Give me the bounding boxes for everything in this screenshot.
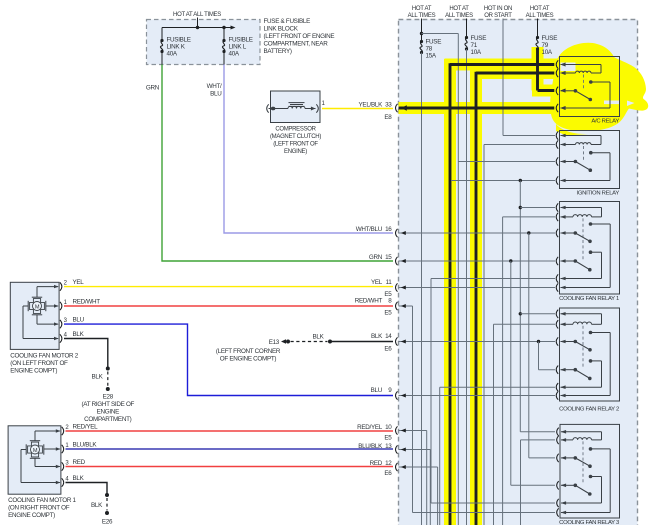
svg-text:FUSE: FUSE (542, 35, 558, 42)
svg-text:ENGINE: ENGINE (97, 409, 119, 416)
relay K5 cooling fan relay 3 (557, 424, 620, 518)
svg-text:ENGINE COMPT): ENGINE COMPT) (8, 512, 55, 519)
svg-text:LINK K: LINK K (167, 44, 186, 51)
svg-text:40A: 40A (229, 51, 240, 58)
power feed HOT AT ALL TIMES (fusible links) (173, 12, 221, 18)
label BLU 9 (371, 387, 393, 394)
wire vertical (highlighted) at x=476 (475, 72, 478, 525)
wire BLK 14 with splice E13 (269, 334, 393, 347)
svg-text:10A: 10A (471, 49, 482, 56)
svg-text:HOT AT: HOT AT (412, 6, 432, 12)
svg-text:LINK L: LINK L (229, 44, 247, 51)
svg-text:HOT AT ALL TIMES: HOT AT ALL TIMES (173, 12, 221, 18)
svg-text:YEL/BLK: YEL/BLK (359, 102, 384, 109)
wire from HOT AT ALL TIMES into fuse block (197, 18, 199, 28)
svg-text:78: 78 (426, 46, 433, 53)
label A/C RELAY (591, 118, 619, 124)
svg-text:RED: RED (370, 460, 383, 467)
wire HOT IN ON OR START to ignition relay pin 1 (503, 19, 555, 136)
wire YEL/BLK 33 compressor to A/C relay (322, 102, 393, 121)
highlighter mark over A/C relay circuit (399, 43, 649, 525)
label WHT/BLU 16 (356, 226, 393, 233)
power feed 1 HOT AT ALL TIMES (408, 6, 436, 19)
svg-text:FUSIBLE: FUSIBLE (229, 37, 253, 44)
label COOLING FAN RELAY 2 (559, 406, 619, 412)
svg-text:HOT IN ON: HOT IN ON (484, 6, 512, 12)
svg-text:(ON LEFT FRONT OF: (ON LEFT FRONT OF (10, 360, 68, 367)
svg-text:BLK: BLK (91, 374, 103, 381)
node junction BLK branch (537, 340, 540, 343)
svg-text:(LEFT FRONT OF ENGINE: (LEFT FRONT OF ENGINE (264, 33, 335, 40)
svg-text:RED/YEL: RED/YEL (357, 424, 383, 431)
wire to cooling fan relay 2 pin 1 (519, 312, 555, 315)
wire cooling fan relay 2 pin 2 (coil ground) (494, 324, 556, 525)
wire GRN row to cooling fan relay 1 pin 4 (399, 259, 556, 263)
fuse 79 10A (536, 35, 557, 56)
label IGNITION RELAY (577, 190, 620, 196)
label cooling fan motor 2 (10, 353, 78, 375)
svg-text:E5: E5 (384, 309, 392, 316)
svg-text:BLK: BLK (73, 475, 85, 482)
svg-text:FUSIBLE: FUSIBLE (167, 37, 191, 44)
svg-text:OF ENGINE COMPT): OF ENGINE COMPT) (220, 356, 277, 363)
connector brackets at block left edge (396, 104, 398, 471)
label RED 12 / E6 (370, 460, 393, 477)
svg-text:IGNITION RELAY: IGNITION RELAY (577, 190, 620, 196)
svg-text:BLK: BLK (371, 333, 383, 340)
label cooling fan motor 1 (8, 497, 76, 519)
fuse block caption (264, 18, 335, 55)
svg-text:BLK: BLK (91, 502, 103, 509)
node junction ignition output / relay coil feed (519, 179, 522, 182)
node junction at fusible link K feed (196, 26, 199, 29)
wire to cooling fan relay 1 pin 1 (519, 206, 555, 209)
svg-text:14: 14 (385, 333, 392, 340)
wire GRN from fusible link K to cooling fan relay 1 (146, 65, 393, 262)
svg-text:11: 11 (386, 279, 393, 286)
svg-text:M: M (33, 448, 38, 454)
relay K2 ignition relay (556, 131, 619, 189)
svg-text:ALL TIMES: ALL TIMES (445, 13, 473, 19)
svg-text:E26: E26 (102, 519, 113, 525)
node junction GRN branch (509, 259, 512, 262)
svg-text:10A: 10A (542, 49, 553, 56)
node branch junction fuse 78 feed (420, 32, 423, 35)
svg-text:COMPARTMENT, NEAR: COMPARTMENT, NEAR (264, 41, 329, 48)
svg-text:HOT AT: HOT AT (449, 6, 469, 12)
svg-text:YEL: YEL (73, 279, 85, 286)
wire BLK motor1 pin4 to ground E26 (66, 475, 110, 515)
svg-text:GRN: GRN (369, 254, 383, 261)
wire fuse 78 feed (421, 19, 423, 42)
wire RED motor1 pin3 (66, 459, 394, 467)
svg-text:COOLING FAN MOTOR 2: COOLING FAN MOTOR 2 (10, 353, 78, 360)
label COOLING FAN RELAY 3 (559, 520, 620, 525)
wire BLU/BLK motor1 pin1 (66, 442, 394, 450)
label BLU/BLK 13 (358, 443, 392, 450)
svg-text:COOLING FAN RELAY 3: COOLING FAN RELAY 3 (559, 520, 620, 525)
wire vertical distribution (highlighted) at x=450 (449, 63, 452, 525)
svg-text:E8: E8 (384, 114, 392, 121)
svg-text:40A: 40A (167, 51, 178, 58)
svg-text:BLU: BLU (73, 317, 85, 324)
svg-text:10: 10 (385, 424, 392, 431)
label YEL 11 / E5 (371, 279, 392, 298)
svg-text:COOLING FAN RELAY 2: COOLING FAN RELAY 2 (559, 406, 619, 412)
svg-text:M: M (35, 304, 40, 310)
wire GRN branch to cooling fan relay 3 pin 4 (511, 261, 555, 485)
svg-text:A/C RELAY: A/C RELAY (591, 118, 619, 124)
svg-text:BLK: BLK (73, 331, 85, 338)
svg-text:ALL TIMES: ALL TIMES (408, 13, 436, 19)
wire fuse 79 output to A/C relay pin 3 (highlighted) (538, 49, 566, 93)
wire to cooling fan relay 3 pin 1 (520, 431, 555, 433)
svg-text:E13: E13 (269, 339, 280, 346)
compressor (magnet clutch) (267, 91, 326, 155)
wire BLK row to cooling fan relay 2 pin 3 (399, 340, 556, 344)
relay K4 cooling fan relay 2 (556, 308, 619, 401)
relay K1 A/C relay (556, 57, 619, 117)
wire WHT/BLU row to cooling fan relay 1 pin 3 (399, 231, 556, 235)
wire branch to ignition relay pin 3 (458, 161, 555, 163)
wire WHT/BLU from fusible link L to cooling fan relay 1 (207, 65, 393, 234)
motor M1 cooling fan motor 1 (8, 425, 69, 494)
svg-text:BLU: BLU (210, 91, 222, 98)
svg-text:(LEFT FRONT CORNER: (LEFT FRONT CORNER (216, 348, 281, 355)
power feed 3 HOT AT ALL TIMES (526, 6, 554, 19)
svg-text:YEL: YEL (371, 279, 383, 286)
wire cooling fan relay 1 pin 2 (coil ground) (503, 217, 555, 525)
svg-text:WHT/: WHT/ (207, 83, 222, 90)
svg-text:E28: E28 (103, 394, 114, 401)
wire fuse 78 output (421, 53, 423, 525)
wire fuse 71 feed (466, 19, 468, 38)
svg-text:71: 71 (471, 42, 478, 49)
label BLK 14 / E6 (371, 333, 392, 352)
node junction at fusible link L feed (222, 26, 225, 29)
fusible link K 40A (160, 28, 190, 65)
fuse 78 15A (420, 39, 441, 60)
svg-text:E6: E6 (384, 470, 392, 477)
wire branch to A/C relay pin 1 and ignition relay (422, 34, 459, 525)
power feed HOT IN ON OR START (484, 6, 512, 19)
label COOLING FAN RELAY 1 (559, 296, 619, 302)
svg-text:(ON RIGHT FRONT OF: (ON RIGHT FRONT OF (8, 505, 70, 512)
wire RED/YEL row (399, 429, 427, 525)
wire YEL motor2 pin2 (64, 279, 393, 287)
wire YEL/BLK bus to A/C relay pin 4 (highlighted) (399, 105, 566, 110)
bus wire inside fuse block (162, 26, 236, 30)
svg-text:12: 12 (385, 460, 392, 467)
motor M2 cooling fan motor 2 (10, 280, 67, 349)
node junction WHT/BLU branch (527, 231, 530, 234)
svg-text:GRN: GRN (146, 85, 160, 92)
ground E26 (102, 519, 113, 525)
wire YEL row to cooling fan relay 1 pin 6 (399, 286, 556, 290)
wire WHT/BLU branch to cooling fan relay 3 pin 3 (529, 233, 555, 458)
svg-text:COMPARTMENT): COMPARTMENT) (84, 416, 131, 423)
svg-text:HOT AT: HOT AT (530, 6, 550, 12)
ground E28 (81, 394, 134, 424)
svg-text:15A: 15A (426, 53, 437, 60)
svg-text:15: 15 (385, 254, 392, 261)
svg-text:BLK: BLK (312, 334, 324, 341)
svg-text:RED/WHT: RED/WHT (355, 297, 383, 304)
svg-text:E5: E5 (384, 434, 392, 441)
svg-text:ENGINE COMPT): ENGINE COMPT) (10, 368, 57, 375)
svg-text:FUSE: FUSE (471, 35, 487, 42)
wire ignition relay pin 4 output (451, 180, 555, 182)
svg-text:WHT/BLU: WHT/BLU (356, 226, 383, 233)
wire ignition relay pin 2 (484, 145, 555, 525)
wire A/C relay pin 2 to amplifier (highlighted) (476, 71, 566, 75)
wire RED/YEL motor1 pin2 (66, 424, 394, 432)
svg-text:OR START: OR START (484, 13, 512, 19)
wire ignition-switched feed to A/C relay pin 1 (highlighted) (450, 63, 566, 67)
power feed 2 HOT AT ALL TIMES (445, 6, 473, 19)
wire fuse 79 feed (537, 19, 539, 38)
svg-text:FUSE & FUSIBLE: FUSE & FUSIBLE (264, 18, 311, 25)
relay/junction block (right dashed box) (399, 20, 638, 525)
svg-text:BLU: BLU (371, 387, 383, 394)
relay K3 cooling fan relay 1 (556, 202, 619, 295)
wire BLU/BLK row (399, 448, 431, 525)
svg-text:(MAGNET CLUTCH): (MAGNET CLUTCH) (270, 134, 321, 140)
svg-text:ALL TIMES: ALL TIMES (526, 13, 554, 19)
svg-text:RED/WHT: RED/WHT (73, 298, 101, 305)
fusible link L 40A (222, 28, 252, 65)
wire RED/WHT row to cooling fan relay 3 pin 6 (399, 304, 556, 513)
svg-text:79: 79 (542, 42, 549, 49)
svg-text:(AT RIGHT SIDE OF: (AT RIGHT SIDE OF (81, 401, 134, 408)
label GRN 15 (369, 254, 392, 261)
wire coil feed vertical to fan relays (519, 181, 521, 432)
fuse and fusible link block (147, 20, 261, 65)
wire BLU motor2 pin3 (64, 317, 393, 396)
svg-text:RED: RED (73, 459, 86, 466)
wire cooling fan relay 2 pin 5 (440, 387, 555, 525)
svg-text:LINK BLOCK: LINK BLOCK (264, 26, 299, 33)
svg-text:COOLING FAN MOTOR 1: COOLING FAN MOTOR 1 (8, 497, 76, 504)
wire cooling fan relay 1 pin 5 to relay 3 pin 5 (431, 279, 555, 504)
svg-text:FUSE: FUSE (426, 39, 442, 46)
svg-text:16: 16 (385, 226, 392, 233)
svg-text:BATTERY): BATTERY) (264, 48, 292, 55)
wire RED/WHT motor2 pin1 (64, 298, 393, 306)
label RED/YEL 10 / E5 (357, 424, 392, 442)
svg-text:COOLING FAN RELAY 1: COOLING FAN RELAY 1 (559, 296, 619, 302)
svg-text:E6: E6 (384, 345, 392, 352)
wire fuse 71 output (466, 49, 468, 525)
svg-text:(LEFT FRONT OF: (LEFT FRONT OF (273, 142, 318, 148)
label RED/WHT 8 / E5 (355, 297, 393, 316)
wire RED row (399, 465, 438, 525)
wire BLU row to cooling fan relay 2 pin 6 (399, 394, 556, 398)
svg-text:RED/YEL: RED/YEL (73, 424, 99, 431)
svg-text:33: 33 (385, 102, 392, 109)
svg-text:BLU/BLK: BLU/BLK (73, 442, 98, 449)
svg-text:COMPRESSOR: COMPRESSOR (275, 127, 316, 133)
wire cooling fan relay 3 pin 2 (coil ground) (521, 440, 556, 525)
node E13 caption (216, 348, 281, 363)
wire BLK motor2 pin4 to ground E28 (64, 331, 110, 391)
svg-text:ENGINE): ENGINE) (284, 149, 307, 155)
wire BLK branch to cooling fan relay 2 pin 4 (539, 342, 556, 370)
fuse 71 10A (465, 35, 486, 56)
